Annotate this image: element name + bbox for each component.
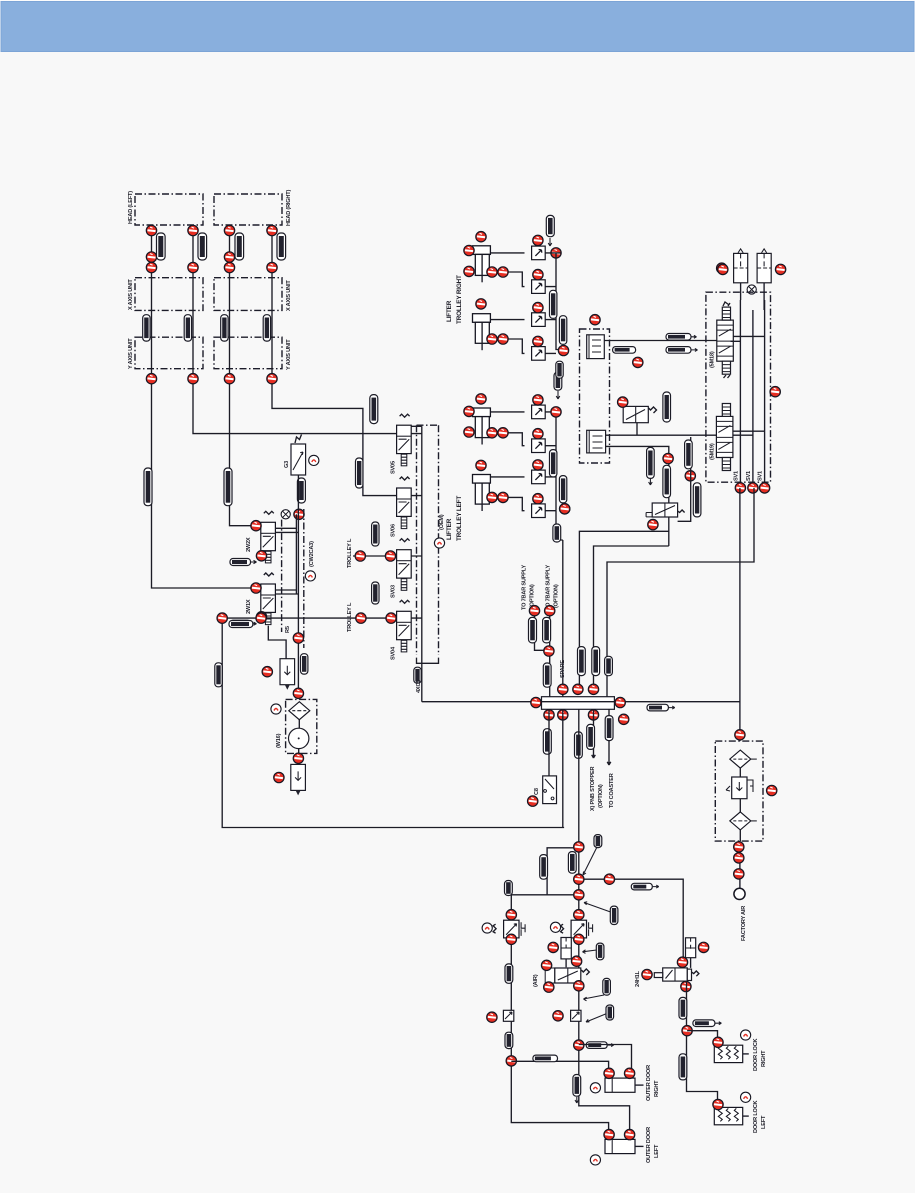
wire rail group2 bbox=[545, 412, 556, 511]
ref bubble 1 bbox=[741, 1092, 751, 1102]
node marker bbox=[487, 428, 497, 438]
wire valve L2 outlets to right rail bbox=[275, 590, 298, 594]
wire between bbox=[739, 768, 741, 777]
annotation diagonal mid-a bbox=[584, 902, 612, 913]
node marker filters right bbox=[775, 264, 785, 274]
wire cyl TR2 top to sq3 bbox=[489, 319, 525, 321]
node marker right top of box bbox=[770, 387, 780, 397]
node marker bbox=[748, 483, 758, 493]
wire rail group1 bbox=[545, 253, 561, 354]
node marker valve C left stub bbox=[642, 969, 652, 979]
svg-text:HEAD (LEFT): HEAD (LEFT) bbox=[128, 191, 134, 224]
tag on V7 right rail upper bbox=[685, 440, 693, 469]
node marker bbox=[476, 299, 486, 309]
tag spare arrow on branch bbox=[631, 883, 652, 890]
node marker above filter box bbox=[735, 730, 745, 740]
regulator R2 body bbox=[291, 764, 306, 795]
air filter dashdot box bbox=[715, 741, 763, 841]
node marker right of manifold box bbox=[717, 263, 727, 273]
box Y AXIS UNIT right bbox=[214, 337, 282, 369]
node marker bbox=[487, 267, 497, 277]
node marker bbox=[476, 460, 486, 470]
wire long trolley feed bbox=[222, 618, 564, 827]
node marker bbox=[734, 869, 744, 879]
wire jog from main to left branch bbox=[547, 848, 579, 895]
wire pilot valve down bbox=[636, 423, 638, 436]
box X AXIS UNIT left bbox=[135, 278, 203, 311]
svg-text:X AXIS UNIT: X AXIS UNIT bbox=[128, 279, 134, 310]
svg-text:(OPTION): (OPTION) bbox=[554, 584, 560, 608]
node marker main 846 bbox=[574, 842, 584, 852]
small tag pair below blockA bbox=[556, 361, 563, 378]
tag on left drop top bbox=[505, 881, 513, 896]
tag arrow right of 1045 bbox=[586, 1042, 607, 1049]
speed tag line4 mid bbox=[263, 315, 270, 341]
svg-text:(AIR): (AIR) bbox=[533, 974, 539, 987]
valve SV03 bbox=[397, 539, 412, 591]
arrow tag 4POU bbox=[230, 559, 251, 566]
wire valve L2 drain to R5 bbox=[268, 626, 286, 659]
block lower bottom ext bbox=[722, 458, 730, 471]
valve SV04 bbox=[397, 600, 412, 652]
node marker valve L1 left bbox=[251, 521, 261, 531]
node marker bbox=[188, 225, 198, 235]
tag on V7 right rail lower bbox=[693, 483, 701, 517]
filter diamond bottom bbox=[730, 812, 751, 830]
node marker bbox=[487, 334, 497, 344]
node marker x298 y693 bbox=[293, 688, 303, 698]
node marker bbox=[464, 266, 474, 276]
wire manifold x593.5 down arrow PNB bbox=[592, 709, 596, 758]
wire between2 bbox=[739, 799, 741, 812]
svg-text:(OEM): (OEM) bbox=[439, 514, 445, 530]
wire manifold x609 down arrow COASTER bbox=[607, 709, 611, 765]
node markers SV03 stub bbox=[355, 551, 365, 561]
filter unit right a bbox=[734, 253, 748, 282]
wire cyl TR1 side to sq2 bbox=[489, 272, 525, 287]
tag below rail1 with down arrow bbox=[554, 372, 562, 390]
node marker bbox=[256, 613, 266, 623]
svg-text:FACTORY AIR: FACTORY AIR bbox=[741, 906, 747, 941]
node marker bbox=[464, 245, 474, 255]
node markers trolley feed bbox=[217, 613, 227, 623]
filter unit dashdot box bbox=[286, 699, 317, 753]
ref bubble valve A left bbox=[550, 922, 560, 932]
filter diamond bbox=[289, 702, 310, 720]
annotation diagonal top bbox=[583, 847, 597, 875]
node marker below filter box bbox=[293, 753, 303, 763]
svg-text:LIFTER: LIFTER bbox=[446, 300, 453, 322]
sol tag line3 bbox=[235, 233, 244, 260]
svg-text:DOOR LOCK: DOOR LOCK bbox=[753, 1100, 759, 1133]
box X AXIS UNIT right bbox=[214, 278, 282, 311]
door lock right bbox=[714, 1045, 749, 1062]
node marker bbox=[267, 374, 277, 384]
speed tag line3 mid bbox=[221, 315, 228, 341]
wire SV rail x421.8 supply bbox=[411, 426, 422, 701]
svg-text:SV05: SV05 bbox=[391, 461, 397, 474]
node marker flow square center bbox=[553, 1011, 563, 1021]
tag rail2 a bbox=[550, 450, 557, 477]
svg-text:(W16): (W16) bbox=[276, 733, 282, 748]
svg-text:24H1L: 24H1L bbox=[635, 970, 641, 987]
svg-text:SV1: SV1 bbox=[758, 471, 764, 481]
svg-text:C8: C8 bbox=[534, 788, 540, 795]
node marker bbox=[476, 394, 486, 404]
tag on trolley feed bbox=[229, 621, 253, 628]
check valve sq4 bbox=[532, 347, 546, 361]
node marker compensator bbox=[548, 942, 558, 952]
pilot valve above wire B bbox=[623, 406, 648, 422]
node markers outer door right bbox=[604, 1068, 614, 1078]
wire air inlet bbox=[739, 830, 741, 889]
node marker valve C top bbox=[677, 957, 687, 967]
node marker right of air box bbox=[767, 785, 777, 795]
svg-text:Y AXIS UNIT: Y AXIS UNIT bbox=[286, 339, 292, 370]
node marker below wire bbox=[633, 357, 643, 367]
wire valve L1 outlets to right rail bbox=[275, 528, 298, 532]
valve B (center horizontal) bbox=[545, 968, 589, 983]
node marker left valve top bbox=[506, 910, 516, 920]
long tag on line1 y468 bbox=[144, 468, 152, 506]
node marker bbox=[624, 1129, 634, 1139]
tag arrow on lock branch bbox=[693, 1020, 715, 1027]
tag supply stub a bbox=[529, 617, 537, 643]
node marker bbox=[498, 267, 508, 277]
node marker sq5 right bbox=[551, 407, 561, 417]
dashdot box bbox=[580, 329, 610, 463]
ref bubble 7 bbox=[309, 455, 319, 465]
wire SV03 left stub TROLLEYL bbox=[353, 555, 397, 557]
node marker bbox=[476, 232, 486, 242]
compensator below valve A bbox=[561, 938, 571, 959]
node marker door lock right bbox=[713, 1037, 723, 1047]
node marker bbox=[464, 406, 474, 416]
valve block lower bbox=[716, 416, 733, 457]
node marker lock branch bbox=[682, 1026, 692, 1036]
node marker bbox=[498, 428, 508, 438]
node marker rail1 end bbox=[558, 345, 568, 355]
speed tag line1 mid bbox=[143, 315, 150, 341]
node marker valve C bottom bbox=[681, 981, 691, 991]
node marker bbox=[224, 262, 234, 272]
node marker bbox=[146, 262, 156, 272]
exhaust circle bbox=[281, 510, 290, 519]
node marker flow square left bbox=[487, 1012, 497, 1022]
valve L2 body bbox=[261, 573, 276, 625]
wire diamond to gauge bbox=[298, 720, 301, 759]
wire manifold x562.8 down-left loop bbox=[562, 709, 564, 827]
svg-text:X) PNB STOPPER: X) PNB STOPPER bbox=[590, 766, 596, 811]
node marker bbox=[224, 225, 234, 235]
svg-text:TROLLEY L: TROLLEY L bbox=[347, 602, 353, 632]
air inlet open circle bbox=[734, 888, 745, 899]
wire line4 x272 bbox=[272, 225, 397, 496]
node marker right of sq1 bbox=[551, 248, 561, 258]
node marker bbox=[385, 551, 395, 561]
node markers on lines below HEAD boxes bbox=[146, 225, 156, 235]
tag on V7 feed bbox=[663, 465, 671, 497]
exhaust between filters bbox=[747, 285, 756, 294]
svg-text:RIGHT: RIGHT bbox=[761, 1050, 767, 1067]
wire cyl TL2 top to sq7 bbox=[489, 476, 525, 478]
wire valve C down to locks bbox=[687, 981, 718, 1101]
check valve sq6 bbox=[532, 439, 546, 453]
node marker pilot valve bbox=[618, 397, 628, 407]
tag 4SEB30 bbox=[370, 395, 378, 424]
wire staircase C bbox=[607, 488, 754, 697]
sol tag line4 bbox=[277, 233, 286, 260]
left drop line x511.3 bbox=[511, 895, 608, 1131]
valve SV05 bbox=[397, 414, 412, 466]
dashdot boundary CW2CA3 left bbox=[281, 520, 283, 632]
sol tag line2 bbox=[198, 233, 207, 260]
wire V7 bottom port down bbox=[668, 517, 670, 546]
tag on line B drop bbox=[592, 647, 600, 676]
node markers outer door left bbox=[604, 1129, 614, 1139]
svg-text:R5: R5 bbox=[285, 626, 291, 633]
tag right of main a bbox=[568, 852, 576, 874]
node marker above block A bbox=[590, 315, 600, 325]
block upper bottom ext bbox=[722, 361, 730, 374]
node markers below Y AXIS boxes y378 bbox=[146, 374, 156, 384]
ref bubble 11 bbox=[741, 1030, 751, 1040]
node marker bbox=[487, 492, 497, 502]
check valve sq7 bbox=[532, 470, 546, 484]
node marker below right bbox=[619, 714, 629, 724]
tag with down arrow left of V7 feed bbox=[647, 447, 655, 478]
wire block B to right bbox=[606, 434, 753, 436]
tag below wire bbox=[613, 347, 636, 354]
ref bubble 5 bbox=[305, 571, 315, 581]
valve W (left) bbox=[493, 920, 525, 938]
node marker bbox=[624, 1068, 634, 1078]
wire staircase B bbox=[594, 546, 669, 689]
check valve sq1 bbox=[532, 246, 546, 260]
node marker bbox=[464, 427, 474, 437]
tag left drop 1032 bbox=[505, 1032, 513, 1048]
manifold block A bbox=[587, 335, 605, 359]
node marker valve B left top bbox=[541, 960, 551, 970]
main vertical line lower bbox=[579, 709, 630, 1131]
node marker valve B left bottom bbox=[544, 982, 554, 992]
long tag on line3 y468 bbox=[224, 468, 232, 506]
node marker valve A bottom bbox=[574, 934, 584, 944]
svg-text:(5M18): (5M18) bbox=[710, 351, 716, 368]
tag on main line below manifold bbox=[575, 732, 583, 758]
svg-text:TO 7BAR SUPPLY: TO 7BAR SUPPLY bbox=[522, 564, 528, 610]
wire block B lower outlet to V7 bbox=[606, 446, 669, 503]
manifold block B bbox=[587, 430, 606, 453]
tag on line C drop bbox=[605, 656, 613, 675]
wire block upper outlet rail bbox=[731, 336, 765, 341]
svg-text:2W2X: 2W2X bbox=[246, 537, 252, 552]
control valve V7 bbox=[652, 503, 677, 517]
node marker right of reservoir bbox=[698, 942, 708, 952]
node marker door lock left bbox=[713, 1099, 723, 1109]
wire V7 right side to rail bbox=[678, 437, 691, 521]
node marker left valve bottom bbox=[506, 934, 516, 944]
ref bubble 1 bbox=[271, 704, 281, 714]
node marker bbox=[573, 684, 583, 694]
node marker R5 left bbox=[262, 667, 272, 677]
svg-text:TO 7BAR SUPPLY: TO 7BAR SUPPLY bbox=[546, 564, 552, 610]
node marker supply junction bbox=[544, 646, 554, 656]
node marker bbox=[267, 225, 277, 235]
node marker main 1045 bbox=[574, 1040, 584, 1050]
node marker bbox=[498, 334, 508, 344]
svg-text:HEAD (RIGHT): HEAD (RIGHT) bbox=[286, 190, 292, 226]
svg-text:SV06: SV06 bbox=[391, 524, 397, 537]
tag on supply drop bbox=[543, 663, 551, 687]
block lower top ext bbox=[722, 404, 730, 417]
node marker bbox=[588, 710, 598, 720]
node markers below big box bbox=[735, 483, 745, 493]
node marker filters left bbox=[718, 264, 728, 274]
G3 spring top bbox=[295, 435, 302, 444]
G3 regulator body bbox=[291, 444, 306, 475]
node marker on V7 feed bbox=[663, 453, 673, 463]
tag on lock line b bbox=[679, 1054, 687, 1080]
node markers manifold bottom bbox=[544, 710, 554, 720]
node marker left edge mid bbox=[560, 504, 570, 514]
valve C (right) bbox=[663, 968, 688, 981]
gauge circle bbox=[289, 728, 309, 748]
node marker bbox=[224, 252, 234, 262]
node marker bbox=[734, 853, 744, 863]
tag on branch bbox=[533, 1055, 558, 1062]
dashdot box bottom closure bbox=[417, 658, 439, 664]
valve SV06 bbox=[397, 477, 412, 529]
tag above pilot valve column bbox=[663, 392, 671, 422]
svg-text:4XC5: 4XC5 bbox=[416, 680, 422, 693]
node marker bbox=[188, 262, 198, 272]
regulator in box bbox=[732, 777, 747, 799]
flow square left bbox=[503, 1010, 513, 1021]
svg-text:G3: G3 bbox=[284, 461, 290, 468]
box HEAD (LEFT) bbox=[135, 194, 203, 225]
wire cyl TR1 top to sq1 bbox=[489, 252, 525, 254]
node marker branch right a bbox=[574, 874, 584, 884]
wire left drop branch to right cyl bbox=[511, 1061, 608, 1069]
tag on PNB line bbox=[587, 724, 595, 749]
node marker valve B top bbox=[571, 956, 581, 966]
svg-text:TROLLEY RIGHT: TROLLEY RIGHT bbox=[456, 275, 463, 324]
wire cyl TL1 top to sq5 bbox=[489, 411, 525, 413]
cylinder TR1 bbox=[473, 246, 491, 282]
node marker x298 y638 bbox=[293, 633, 303, 643]
node marker above V7 right bbox=[685, 471, 695, 481]
tag above column with down arrow bbox=[546, 215, 554, 236]
wire cyl TL2 side to sq8 bbox=[489, 497, 525, 510]
wire manifold x549 down to pressure switch bbox=[548, 709, 550, 776]
node marker supply stub b bbox=[545, 606, 555, 616]
node marker R2 left bbox=[274, 772, 284, 782]
svg-text:OUTER DOOR: OUTER DOOR bbox=[646, 1127, 652, 1163]
svg-text:OUTER DOOR: OUTER DOOR bbox=[646, 1065, 652, 1101]
annotation diagonal center bbox=[586, 1013, 608, 1022]
svg-text:2W1X: 2W1X bbox=[246, 599, 252, 614]
wire line3 x229.5 bbox=[230, 225, 257, 526]
wire filters down bbox=[741, 283, 765, 310]
wire branch left y894.8 bbox=[511, 894, 579, 896]
speed tag line2 mid bbox=[184, 315, 191, 341]
header blue banner bbox=[1, 2, 914, 52]
svg-text:SV03: SV03 bbox=[391, 585, 397, 598]
node marker rail2 end bbox=[560, 504, 570, 514]
tag on wire b arrow bbox=[666, 347, 691, 354]
node marker valve L2 drain bbox=[256, 612, 266, 622]
node marker valve L1 drain bbox=[256, 551, 266, 561]
ref bubble OEM5 bbox=[434, 538, 444, 548]
node marker bbox=[498, 492, 508, 502]
tag on bypass line bbox=[301, 654, 308, 674]
tag rail1 a bbox=[550, 290, 557, 318]
svg-text:DOOR LOCK: DOOR LOCK bbox=[753, 1038, 759, 1071]
node marker branch left bbox=[574, 890, 584, 900]
ref bubble 40 bbox=[590, 1083, 600, 1093]
flow square center bbox=[571, 1010, 581, 1021]
node marker near exhaust bbox=[294, 509, 304, 519]
cylinder TR2 bbox=[473, 314, 491, 351]
node marker bbox=[386, 613, 396, 623]
wire line2 x193 bbox=[193, 225, 397, 434]
node marker bbox=[356, 613, 366, 623]
wire rail x296.4 bbox=[295, 514, 297, 594]
svg-text:RIGHT: RIGHT bbox=[654, 1080, 660, 1097]
tag above SV04 bbox=[372, 582, 379, 604]
valve block upper bbox=[717, 320, 734, 361]
svg-text:LEFT: LEFT bbox=[761, 1115, 767, 1129]
svg-text:LEFT: LEFT bbox=[654, 1144, 660, 1158]
wire cyl TR2 side to sq4 bbox=[489, 339, 525, 353]
tag on coaster line bbox=[605, 716, 613, 741]
sol tag line1 bbox=[157, 233, 166, 260]
wire line1 x151.5 bbox=[152, 225, 257, 588]
svg-text:X AXIS UNIT: X AXIS UNIT bbox=[286, 280, 292, 311]
svg-text:(5M19): (5M19) bbox=[710, 443, 716, 460]
tag 4PCS on supply bbox=[414, 667, 421, 683]
tag above SV03 bbox=[372, 522, 379, 546]
annotation diagonal mid-c bbox=[584, 995, 605, 1001]
node markers pairs y257/267 bbox=[146, 252, 156, 262]
wire supply vertical x739.9 bbox=[739, 488, 741, 741]
node marker branch right b bbox=[604, 874, 614, 884]
wire block A to right blocks bbox=[604, 340, 717, 342]
svg-text:SV1: SV1 bbox=[746, 471, 752, 481]
node marker valve B bottom bbox=[574, 981, 584, 991]
node markers manifold top bbox=[558, 684, 568, 694]
wire supply stub a down bbox=[535, 615, 549, 650]
wire G3 down x298.4 bbox=[297, 475, 299, 693]
big dashdot box bbox=[706, 292, 771, 482]
svg-text:(CW2CA3): (CW2CA3) bbox=[309, 541, 315, 567]
filter diamond top bbox=[730, 750, 751, 768]
node marker main 914 bbox=[574, 910, 584, 920]
box Y AXIS UNIT left bbox=[135, 337, 203, 369]
check valve sq5 bbox=[532, 405, 546, 419]
node marker bbox=[224, 374, 234, 384]
wire branch to right cyl right port bbox=[579, 1045, 632, 1070]
check valve sq3 bbox=[532, 313, 546, 327]
wire rail2 down to manifold bbox=[556, 511, 563, 697]
outer door left cylinder bbox=[605, 1139, 644, 1153]
svg-text:TO COASTER: TO COASTER bbox=[609, 773, 615, 808]
node marker bbox=[759, 483, 769, 493]
svg-text:(OPTION): (OPTION) bbox=[598, 784, 604, 808]
node marker bbox=[558, 710, 568, 720]
dashdot boundary CW2CA3 right bbox=[303, 509, 305, 648]
